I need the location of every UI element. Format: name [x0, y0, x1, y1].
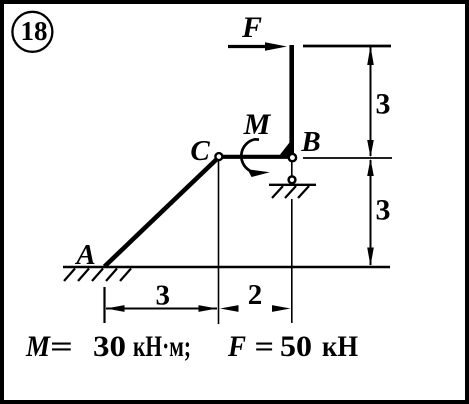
moment arc arrow M — [241, 139, 269, 177]
svg-text:=: = — [255, 330, 275, 363]
svg-text:=: = — [50, 330, 73, 363]
svg-text:18: 18 — [21, 16, 48, 46]
top dimension line — [303, 45, 391, 48]
svg-text:30: 30 — [93, 330, 126, 363]
svg-text:C: C — [190, 135, 210, 167]
svg-text:3: 3 — [376, 87, 391, 120]
svg-text:кН: кН — [322, 330, 358, 363]
extension line below B — [291, 199, 293, 323]
bottom dimension line 3 — [106, 305, 217, 312]
svg-text:50: 50 — [280, 330, 312, 363]
pin joint B — [289, 154, 296, 161]
svg-text:3: 3 — [376, 194, 391, 227]
svg-text:F: F — [241, 11, 262, 44]
svg-text:M: M — [25, 330, 51, 363]
svg-text:кН·м;: кН·м; — [133, 330, 191, 363]
svg-text:2: 2 — [248, 279, 263, 311]
pin joint C — [215, 153, 222, 160]
roller support hatching — [272, 186, 309, 198]
diagonal bar A-C — [105, 157, 220, 267]
svg-text:3: 3 — [155, 280, 170, 312]
roller circle at B — [289, 176, 296, 183]
svg-text:F: F — [227, 330, 246, 363]
problem number circle 18 — [12, 12, 52, 52]
svg-text:B: B — [300, 126, 320, 158]
vertical dimension line right — [367, 46, 374, 266]
equation text M = 30 kN·m — [25, 330, 358, 363]
roller support line — [269, 184, 316, 186]
horizontal bar C-B — [219, 155, 292, 159]
force F arrow — [228, 42, 287, 51]
middle dimension extension line at B level — [303, 157, 392, 159]
vertical bar B-top — [289, 45, 294, 158]
bottom dimension line 2 — [220, 305, 291, 312]
svg-text:M: M — [243, 108, 272, 141]
dimension tick below A — [103, 287, 105, 323]
roller link at B — [291, 160, 293, 176]
extension line below C — [218, 161, 220, 324]
ground line — [63, 266, 390, 268]
ground hatching at A — [64, 269, 131, 282]
gusset at B — [280, 143, 295, 157]
